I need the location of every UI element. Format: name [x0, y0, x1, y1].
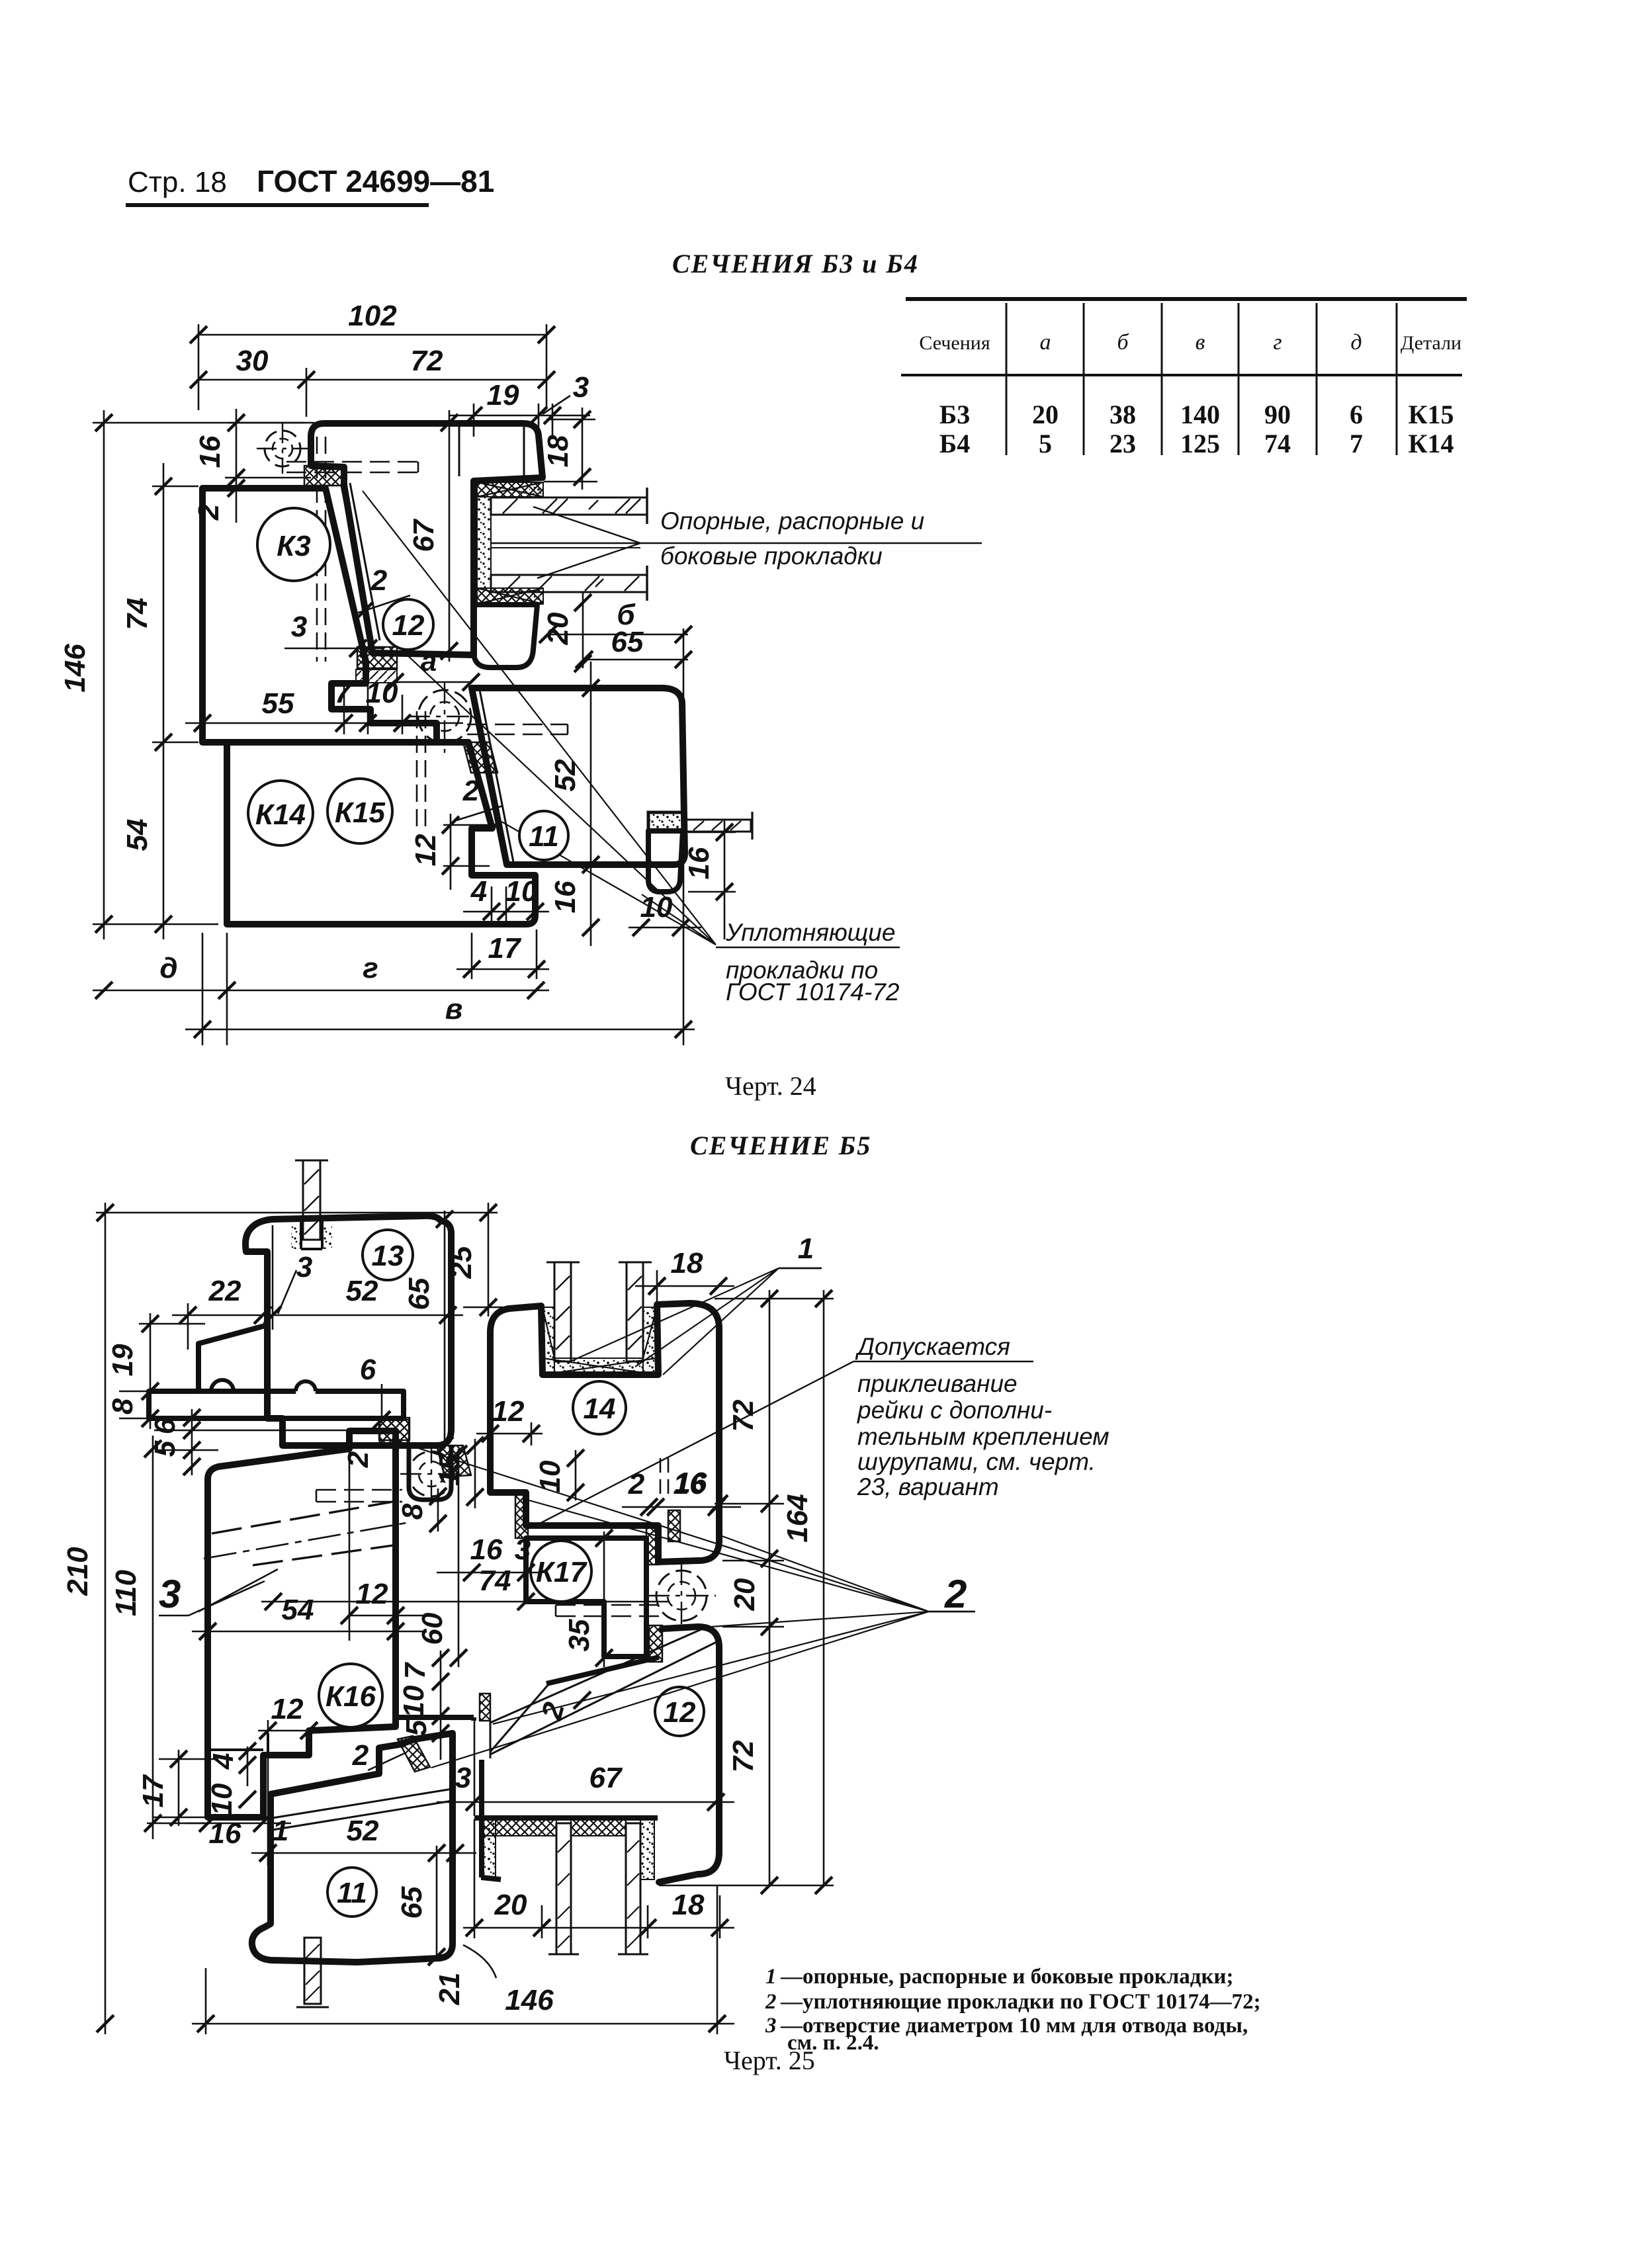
svg-text:7: 7	[335, 677, 353, 709]
label circle 14	[573, 1381, 626, 1434]
frame block K3 outline	[202, 488, 437, 742]
uplotn leader fan	[363, 491, 716, 945]
svg-text:12: 12	[356, 1578, 388, 1610]
sash 11b top slope faces	[273, 1789, 453, 1830]
svg-text:7: 7	[1350, 429, 1363, 458]
svg-text:20: 20	[494, 1889, 527, 1921]
svg-text:б: б	[1117, 330, 1129, 355]
dim 10 otliv	[629, 927, 701, 929]
svg-text:СЕЧЕНИЯ Б3 и Б4: СЕЧЕНИЯ Б3 и Б4	[672, 249, 919, 279]
top extension line	[96, 1212, 498, 1214]
svg-text:13: 13	[372, 1240, 404, 1272]
dim 19 3 top	[450, 396, 590, 437]
svg-text:рейки с дополни-: рейки с дополни-	[857, 1397, 1052, 1424]
svg-text:146: 146	[505, 1984, 554, 2016]
label circle K15	[327, 779, 392, 843]
svg-text:12: 12	[664, 1696, 696, 1729]
label circle K3	[257, 508, 330, 581]
K16 left step thin line	[208, 1748, 263, 1751]
svg-text:3: 3	[573, 371, 589, 404]
dim 30 72	[198, 368, 546, 417]
svg-text:38: 38	[1109, 400, 1136, 429]
seal on sash11b left step	[398, 1736, 430, 1772]
seal gasket K3 top (hatch)	[304, 466, 343, 486]
label circle K17	[531, 1541, 591, 1602]
svg-text:Детали: Детали	[1401, 332, 1461, 354]
svg-text:К14: К14	[1408, 429, 1454, 458]
leader fan to putty	[533, 507, 640, 578]
page header	[126, 164, 494, 205]
dim 20 18 bottom glazing	[463, 1819, 734, 1938]
svg-text:16: 16	[675, 1467, 707, 1499]
svg-text:СЕЧЕНИЕ Б5: СЕЧЕНИЕ Б5	[690, 1131, 871, 1160]
svg-text:110: 110	[110, 1569, 142, 1616]
svg-text:16: 16	[683, 847, 715, 879]
sash 12 glazing bead bottom	[474, 605, 537, 668]
svg-text:К14: К14	[255, 798, 306, 831]
svg-text:55: 55	[262, 687, 294, 720]
svg-text:—уплотняющие прокладки по Г: —уплотняющие прокладки по ГОСТ 10174—72;	[780, 1990, 1261, 2014]
svg-text:12: 12	[492, 1395, 525, 1428]
svg-text:10: 10	[505, 875, 538, 908]
svg-text:17: 17	[137, 1774, 169, 1807]
bead notch	[211, 1380, 234, 1402]
svg-text:140: 140	[1180, 400, 1220, 429]
svg-text:23: 23	[1109, 429, 1136, 458]
dim 102	[198, 324, 546, 410]
svg-text:К17: К17	[536, 1556, 588, 1588]
svg-text:4: 4	[207, 1753, 239, 1770]
svg-text:в: в	[1196, 330, 1205, 355]
svg-text:10: 10	[206, 1783, 238, 1815]
seal gasket K3 bottom (hatch)	[357, 647, 397, 668]
svg-text:16: 16	[209, 1817, 241, 1850]
svg-text:Сечения: Сечения	[919, 332, 990, 354]
svg-text:52: 52	[346, 1275, 378, 1307]
svg-text:Черт. 25: Черт. 25	[724, 2046, 815, 2075]
hinge leaf dashed middle	[467, 724, 568, 734]
svg-text:125: 125	[1180, 429, 1220, 458]
dim 16 3 K17	[437, 1572, 543, 1574]
svg-text:11: 11	[529, 820, 559, 853]
svg-text:74: 74	[121, 598, 153, 630]
svg-text:Черт. 24: Черт. 24	[725, 1071, 816, 1101]
svg-text:Допускается: Допускается	[855, 1333, 1010, 1360]
dim 146	[93, 410, 304, 939]
svg-text:72: 72	[411, 345, 443, 377]
sash 11 outline	[472, 688, 685, 865]
sash 11 left face line	[480, 690, 513, 862]
dim 3 seal	[284, 648, 384, 650]
dim 35	[603, 1531, 605, 1667]
svg-text:72: 72	[727, 1399, 760, 1432]
dim 146 bottom	[192, 1885, 734, 2034]
svg-text:3: 3	[291, 611, 307, 643]
svg-text:20: 20	[728, 1578, 761, 1611]
svg-text:52: 52	[549, 759, 582, 791]
svg-text:54: 54	[282, 1594, 314, 1626]
svg-text:67: 67	[589, 1762, 623, 1794]
dim 22 3 52 line	[172, 1225, 463, 1350]
glazing putty bottom block (hatch)	[477, 588, 543, 604]
svg-text:16: 16	[194, 435, 226, 468]
dim 55 7 10	[185, 685, 463, 734]
svg-text:3: 3	[296, 1251, 312, 1283]
dim 74	[152, 463, 198, 754]
sash 13 putty speckle	[291, 1225, 301, 1249]
hatch strip under seal	[356, 669, 397, 683]
hinge leaf dashed mid	[316, 1490, 402, 1502]
svg-text:2: 2	[352, 1739, 369, 1772]
svg-text:10: 10	[398, 1685, 430, 1717]
dim 8 mid	[437, 1488, 439, 1531]
sash 12b slope faces	[546, 1657, 659, 1684]
label circle 13	[363, 1230, 413, 1280]
svg-text:16: 16	[470, 1533, 503, 1566]
svg-text:65: 65	[403, 1277, 435, 1310]
svg-text:г: г	[363, 952, 378, 984]
svg-text:2: 2	[944, 1572, 967, 1616]
svg-text:14: 14	[584, 1393, 616, 1425]
svg-text:21: 21	[433, 1973, 466, 2006]
svg-text:30: 30	[236, 345, 269, 377]
svg-text:146: 146	[59, 644, 91, 693]
svg-text:3: 3	[765, 2014, 777, 2038]
K16 block outline	[208, 1431, 396, 1817]
sill bar notch	[296, 1381, 316, 1401]
svg-text:К15: К15	[335, 797, 386, 829]
table	[901, 299, 1467, 455]
dim b 65 right	[548, 634, 688, 660]
svg-text:Б4: Б4	[939, 429, 970, 458]
svg-text:20: 20	[1032, 400, 1059, 429]
svg-text:К16: К16	[326, 1680, 376, 1713]
dim 110	[147, 1436, 205, 1839]
svg-text:25: 25	[445, 1246, 478, 1279]
dim 10 sash14	[575, 1450, 577, 1500]
svg-text:65: 65	[611, 626, 644, 658]
svg-text:19: 19	[107, 1344, 139, 1376]
dim 2 16 right	[622, 1506, 741, 1508]
svg-text:6: 6	[360, 1354, 376, 1386]
K17 strip outline	[526, 1538, 646, 1657]
svg-text:7: 7	[399, 1661, 431, 1679]
svg-text:2: 2	[193, 503, 225, 521]
dim v bottom	[185, 628, 695, 1045]
svg-text:д: д	[159, 952, 177, 984]
hinge pin axis dashed	[317, 437, 326, 662]
seal column left of sash12b	[480, 1694, 490, 1721]
dim 60	[458, 1449, 460, 1667]
svg-text:18: 18	[672, 1889, 705, 1921]
svg-text:Стр. 18: Стр. 18	[128, 166, 227, 198]
K16 top thin lines	[154, 1430, 351, 1450]
annotation uplotn	[725, 919, 900, 1006]
hinge top (dashed circles)	[257, 423, 308, 474]
svg-text:2: 2	[370, 564, 388, 597]
svg-text:4: 4	[470, 875, 487, 908]
svg-text:К3: К3	[277, 530, 311, 562]
glass strip right of sash 11	[683, 812, 752, 840]
putty corner speckles right	[529, 485, 543, 497]
svg-text:5: 5	[149, 1440, 181, 1457]
dim 52 16 vertical right	[590, 662, 592, 946]
sill bar	[149, 1391, 404, 1418]
dim 4 10 bottom	[463, 886, 549, 921]
dim 54 12	[192, 1436, 423, 1641]
hinge mid (dashed)	[400, 1442, 463, 1506]
dim 6 5 left	[191, 1409, 193, 1475]
label circle 12	[383, 599, 433, 650]
svg-text:боковые прокладки: боковые прокладки	[660, 542, 883, 570]
dim 1 52 sash11b	[251, 1852, 476, 1854]
putty speckle column	[477, 497, 491, 588]
svg-text:а: а	[1040, 330, 1051, 355]
dim 25	[463, 1203, 503, 1316]
svg-text:ГОСТ 24699—81: ГОСТ 24699—81	[257, 164, 494, 198]
seal gasket sash11 top (hatch)	[463, 742, 498, 773]
svg-text:3: 3	[515, 1533, 531, 1566]
label circle 12b	[655, 1687, 704, 1736]
sash 13 outline	[245, 1216, 451, 1445]
dim d g bottom	[93, 933, 549, 1045]
svg-text:1: 1	[798, 1232, 814, 1265]
dim 3 67 sash12b	[437, 1721, 734, 1816]
dim 20	[582, 592, 584, 668]
dim 16 2 left	[225, 409, 314, 523]
otliv bead right: speckle	[648, 812, 683, 831]
svg-text:52: 52	[347, 1815, 379, 1847]
seal right of K17	[668, 1510, 680, 1541]
svg-text:17: 17	[488, 932, 522, 965]
label circle 11b	[327, 1868, 376, 1917]
svg-text:10: 10	[534, 1460, 566, 1492]
svg-text:1: 1	[273, 1815, 288, 1847]
sash 12b outline	[659, 1627, 719, 1882]
dim 21	[463, 1945, 496, 1978]
sash 13 glass slot walls	[301, 1221, 322, 1249]
glass pane upper	[491, 488, 647, 524]
svg-text:2: 2	[765, 1990, 777, 2014]
svg-text:1: 1	[765, 1965, 777, 1989]
sash 14 glass strips	[546, 1262, 652, 1361]
hinge leaf dashed top	[286, 462, 418, 472]
glass pane lower	[491, 566, 647, 601]
svg-text:54: 54	[121, 819, 153, 851]
step notch sash 11 small	[472, 825, 501, 828]
label circle K16	[319, 1664, 382, 1727]
dim 12 sash11	[443, 814, 490, 890]
svg-text:5: 5	[400, 1719, 433, 1736]
sash 11b dowel	[296, 1938, 329, 2007]
glass middle line / leader to text	[491, 542, 982, 544]
dim 7 10 5 K16	[440, 1651, 442, 1760]
svg-text:35: 35	[563, 1619, 595, 1651]
svg-text:74: 74	[479, 1565, 511, 1597]
dim 65 sash11b	[436, 1846, 438, 1960]
svg-text:6: 6	[149, 1418, 181, 1434]
svg-text:5: 5	[1039, 429, 1052, 458]
svg-text:ГОСТ 10174-72: ГОСТ 10174-72	[726, 978, 900, 1006]
svg-text:в: в	[445, 993, 463, 1025]
label circle K14	[248, 781, 313, 845]
svg-text:6: 6	[1350, 400, 1363, 429]
svg-text:19: 19	[487, 379, 519, 411]
dim 6 mid	[381, 1384, 383, 1422]
svg-text:11: 11	[337, 1877, 367, 1909]
K16 foot bottom line	[396, 1717, 474, 1721]
middle hinge pin dashed	[417, 711, 425, 832]
svg-text:2: 2	[342, 1451, 374, 1468]
svg-text:д: д	[1350, 330, 1362, 355]
sash 12b glazing	[474, 1815, 658, 1821]
seal under sash 13	[380, 1420, 409, 1446]
svg-text:16: 16	[549, 881, 582, 913]
hinge leaf dashed bottom	[556, 1605, 659, 1616]
dim 18 top right	[635, 1270, 734, 1303]
dim 19 8 left	[119, 1313, 205, 1429]
sash12b seal top	[649, 1625, 662, 1662]
svg-text:12: 12	[392, 609, 425, 642]
svg-text:2: 2	[462, 775, 480, 807]
svg-text:Б3: Б3	[939, 400, 970, 429]
svg-text:12: 12	[271, 1693, 304, 1725]
K16-sash11 step edges	[267, 1733, 269, 1755]
sash13 lower nose	[409, 1445, 451, 1500]
svg-text:3: 3	[455, 1762, 471, 1794]
svg-text:65: 65	[396, 1886, 428, 1919]
svg-text:8: 8	[107, 1398, 139, 1414]
annotation opornye	[660, 507, 924, 570]
svg-text:60: 60	[416, 1612, 449, 1645]
sash 12 top bead joint lines	[459, 425, 524, 476]
svg-text:67: 67	[408, 518, 440, 552]
seal gasket sash14 left	[515, 1494, 528, 1538]
svg-text:72: 72	[727, 1740, 760, 1772]
seal gasket sash14 bottom	[646, 1528, 658, 1565]
sash 12b left wall	[482, 1760, 501, 1879]
otliv bead right body	[648, 831, 683, 892]
svg-text:приклеивание: приклеивание	[857, 1370, 1018, 1397]
dim 12 sash14	[476, 1422, 543, 1488]
hinge bottom right (dashed)	[647, 1563, 716, 1629]
dim 15	[474, 1439, 476, 1508]
svg-text:а: а	[421, 645, 437, 677]
svg-text:—опорные, распорные и боков: —опорные, распорные и боковые прокладки;	[780, 1965, 1234, 1989]
svg-text:Опорные, распорные и: Опорные, распорные и	[660, 507, 924, 535]
dim 16 otliv right	[688, 820, 736, 939]
dim 54	[163, 754, 165, 939]
sash 13 bead left	[198, 1325, 267, 1391]
dim 65 sash13	[444, 1211, 446, 1449]
dim 210	[105, 1203, 107, 2034]
svg-text:К15: К15	[1408, 400, 1454, 429]
svg-text:22: 22	[208, 1275, 241, 1307]
dim 12 17 4 10 16 K16 bottom	[152, 1720, 344, 1866]
middle hinge (dashed circles)	[408, 681, 482, 753]
svg-text:74: 74	[1264, 429, 1291, 458]
seal sash13 bottom right	[437, 1445, 471, 1477]
svg-text:210: 210	[62, 1547, 94, 1596]
svg-text:12: 12	[410, 834, 442, 866]
sash 11b outline	[252, 1733, 453, 1962]
dim 67	[449, 410, 451, 662]
svg-text:102: 102	[348, 300, 397, 332]
svg-text:3: 3	[159, 1572, 181, 1616]
svg-text:18: 18	[542, 435, 574, 467]
sash 14 outline	[490, 1303, 719, 1562]
dim 17	[456, 929, 549, 979]
K3 weatherstrip groove double slant	[341, 483, 380, 643]
svg-text:23, вариант: 23, вариант	[857, 1473, 999, 1500]
svg-text:8: 8	[396, 1503, 429, 1520]
svg-text:шурупами, см. черт.: шурупами, см. черт.	[857, 1448, 1096, 1475]
seal gasket K16 top	[379, 1418, 410, 1440]
dim 18 right	[544, 408, 597, 490]
frame block K14/K15 outline	[227, 742, 535, 924]
glazing putty top block (hatch)	[477, 482, 543, 497]
svg-text:90: 90	[1264, 400, 1291, 429]
sash 13 glass strip top	[295, 1160, 328, 1240]
right dim chain 72 16 20 72	[659, 1290, 834, 1885]
svg-text:тельным креплением: тельным креплением	[857, 1423, 1109, 1450]
svg-text:Уплотняющие: Уплотняющие	[725, 919, 895, 946]
svg-text:10: 10	[640, 891, 673, 924]
svg-text:г: г	[1273, 330, 1282, 355]
K16 dash-dot slope lines	[212, 1502, 393, 1565]
annotation dopuskaetsya	[855, 1333, 1109, 1500]
dashed pin sash14	[660, 1458, 668, 1496]
dim 74	[261, 1601, 668, 1603]
sash14 glazing bottom: putty speckles	[543, 1307, 554, 1373]
sash 12 outline	[311, 423, 543, 655]
svg-text:164: 164	[781, 1494, 814, 1542]
legend	[765, 1965, 1261, 2055]
svg-text:18: 18	[671, 1247, 703, 1279]
svg-text:20: 20	[542, 612, 574, 645]
dim 164	[823, 1290, 825, 1885]
label circle 11	[519, 811, 568, 860]
